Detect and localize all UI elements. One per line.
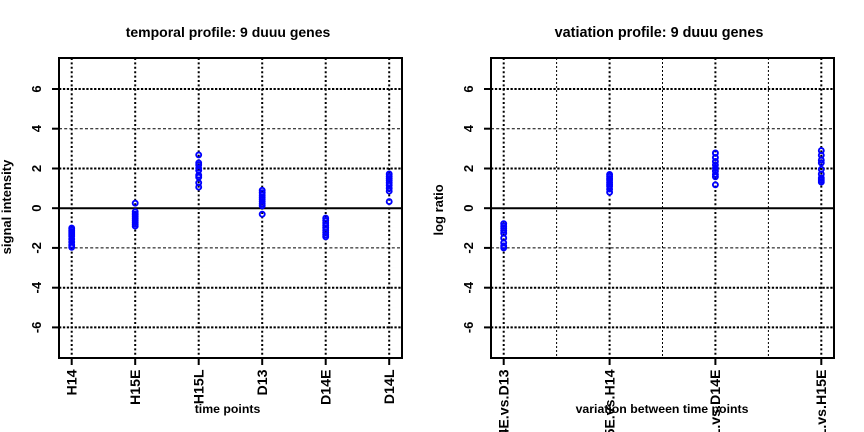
right zero line y=0 xyxy=(491,207,834,209)
left horizontal dotted gridline y=-6 xyxy=(59,326,402,328)
svg-text:6: 6 xyxy=(461,85,476,92)
right y tick 4 xyxy=(484,128,491,130)
right horizontal dotted gridline y=-4 xyxy=(491,287,834,289)
left vertical dotted gridline col 4 xyxy=(261,58,263,358)
right plot box xyxy=(491,58,834,358)
right horizontal dotted gridline y=-6 xyxy=(491,326,834,328)
left horizontal dashed gridline y=4 xyxy=(59,128,402,130)
right data cluster H15L.vs.H15E xyxy=(819,148,824,184)
svg-text:H14: H14 xyxy=(64,369,80,395)
svg-text:2: 2 xyxy=(29,165,44,172)
left data cluster D13 xyxy=(260,188,265,217)
svg-text:-2: -2 xyxy=(461,242,476,254)
left horizontal dotted gridline y=2 xyxy=(59,168,402,170)
left x tick H15E xyxy=(134,358,136,365)
right vertical dotted gridline col 1 xyxy=(503,58,505,358)
right horizontal dotted gridline y=6 xyxy=(491,88,834,90)
left horizontal dotted gridline y=6 xyxy=(59,88,402,90)
svg-text:temporal profile: 9 duuu genes: temporal profile: 9 duuu genes xyxy=(126,24,331,40)
left y tick 6 xyxy=(52,88,59,90)
svg-text:H15L.vs.H15E: H15L.vs.H15E xyxy=(814,370,830,432)
left x tick D14E xyxy=(325,358,327,365)
svg-text:H15E.vs.H14: H15E.vs.H14 xyxy=(602,369,618,432)
right horizontal dotted gridline y=2 xyxy=(491,168,834,170)
svg-text:vatiation profile: 9 duuu gene: vatiation profile: 9 duuu genes xyxy=(555,25,764,41)
left y tick 0 xyxy=(52,207,59,209)
left y tick 2 xyxy=(52,168,59,170)
svg-text:D13: D13 xyxy=(255,369,271,395)
right x tick D14L.vs.D14E xyxy=(714,358,716,365)
left data cluster H15L xyxy=(196,152,201,189)
svg-text:variation between time points: variation between time points xyxy=(576,402,749,416)
left vertical dotted gridline col 2 xyxy=(134,58,136,358)
right vertical dashed gridline col 2 xyxy=(556,58,558,358)
svg-text:6: 6 xyxy=(29,85,44,92)
left data cluster D14L xyxy=(387,172,392,205)
right vertical dotted gridline col 5 xyxy=(714,58,716,358)
right y tick -4 xyxy=(484,287,491,289)
right vertical dashed gridline col 6 xyxy=(767,58,769,358)
left y tick 4 xyxy=(52,128,59,130)
svg-text:0: 0 xyxy=(461,205,476,212)
left vertical dotted gridline col 1 xyxy=(71,58,73,358)
right y tick -2 xyxy=(484,247,491,249)
left horizontal dashed gridline y=-2 xyxy=(59,247,402,249)
svg-text:signal intensity: signal intensity xyxy=(0,159,14,254)
left x tick D13 xyxy=(261,358,263,365)
svg-text:4: 4 xyxy=(461,124,476,132)
right y tick -6 xyxy=(484,326,491,328)
left x tick H15L xyxy=(198,358,200,365)
svg-text:-2: -2 xyxy=(29,242,44,254)
right x tick H15E.vs.H14 xyxy=(609,358,611,365)
left vertical dotted gridline col 5 xyxy=(325,58,327,358)
left data cluster H14 xyxy=(69,226,74,250)
left y tick -6 xyxy=(52,326,59,328)
left plot box xyxy=(59,58,402,358)
left data cluster D14E xyxy=(323,216,328,240)
svg-text:2: 2 xyxy=(461,165,476,172)
right data cluster H15E.vs.H14 xyxy=(607,172,612,195)
svg-text:H15E: H15E xyxy=(128,370,144,406)
svg-text:D14E: D14E xyxy=(318,370,334,406)
right horizontal dashed gridline y=4 xyxy=(491,128,834,130)
right x tick H15L.vs.H15E xyxy=(820,358,822,365)
right x tick D14E.vs.D13 xyxy=(503,358,505,365)
svg-text:D14L.vs.D14E: D14L.vs.D14E xyxy=(708,370,724,432)
svg-text:-6: -6 xyxy=(29,322,44,334)
right y tick 0 xyxy=(484,207,491,209)
svg-text:H15L: H15L xyxy=(191,369,207,404)
svg-text:D14L: D14L xyxy=(382,369,398,404)
right horizontal dashed gridline y=-2 xyxy=(491,247,834,249)
svg-text:time points: time points xyxy=(195,402,261,416)
svg-text:4: 4 xyxy=(29,124,44,132)
left x tick D14L xyxy=(388,358,390,365)
svg-text:-4: -4 xyxy=(461,281,476,293)
svg-text:D14E.vs.D13: D14E.vs.D13 xyxy=(496,369,512,432)
svg-text:-6: -6 xyxy=(461,322,476,334)
left vertical dotted gridline col 3 xyxy=(198,58,200,358)
right vertical dotted gridline col 3 xyxy=(609,58,611,358)
left y tick -2 xyxy=(52,247,59,249)
svg-text:-4: -4 xyxy=(29,281,44,293)
left horizontal dotted gridline y=-4 xyxy=(59,287,402,289)
left y tick -4 xyxy=(52,287,59,289)
right data cluster D14L.vs.D14E xyxy=(713,151,718,188)
left x tick H14 xyxy=(71,358,73,365)
left vertical dotted gridline col 6 xyxy=(388,58,390,358)
svg-text:0: 0 xyxy=(29,205,44,212)
svg-text:log ratio: log ratio xyxy=(431,184,446,235)
right y tick 2 xyxy=(484,168,491,170)
right y tick 6 xyxy=(484,88,491,90)
right data cluster D14E.vs.D13 xyxy=(501,221,506,250)
right vertical dashed gridline col 4 xyxy=(662,58,664,358)
left zero line y=0 xyxy=(59,207,402,209)
left data cluster H15E xyxy=(133,201,138,229)
right vertical dotted gridline col 7 xyxy=(820,58,822,358)
